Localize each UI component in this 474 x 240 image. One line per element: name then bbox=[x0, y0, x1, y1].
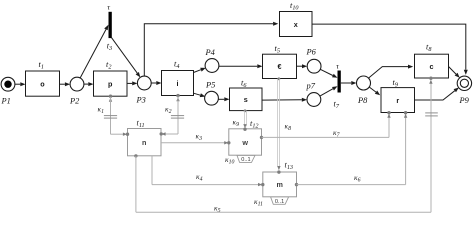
svg-text:κ11: κ11 bbox=[254, 197, 263, 208]
arc P6 -> t7 bbox=[320, 69, 337, 78]
svg-text:κ2: κ2 bbox=[165, 105, 172, 116]
arc t10 -> P9 bbox=[312, 24, 468, 75]
svg-text:t2: t2 bbox=[106, 60, 111, 71]
svg-text:t5: t5 bbox=[275, 44, 280, 55]
place P1 (initial, with token) bbox=[1, 77, 15, 91]
arc t6 -> P7 bbox=[262, 98, 307, 102]
arc kappa2: t4 i <-> t11 n (with = mark) bbox=[160, 94, 185, 136]
transition t11 'n' bbox=[128, 129, 162, 156]
arc P4 -> t5 bbox=[219, 64, 263, 68]
svg-text:t8: t8 bbox=[426, 43, 432, 54]
place P8 bbox=[357, 76, 371, 90]
arc P5 -> t6 bbox=[218, 97, 229, 101]
multiplicity flag 0..1 under t13 m bbox=[271, 197, 289, 205]
svg-text:t12: t12 bbox=[250, 119, 259, 130]
svg-text:s: s bbox=[244, 95, 248, 104]
arc kappa9: t6 s => t12 w (double line) bbox=[243, 109, 246, 130]
svg-text:P5: P5 bbox=[205, 81, 215, 90]
svg-text:P3: P3 bbox=[136, 96, 146, 105]
svg-text:t1: t1 bbox=[39, 60, 44, 71]
svg-text:κ6: κ6 bbox=[354, 173, 361, 184]
arc t5 -> P6 bbox=[297, 64, 308, 68]
transition t1 'o' bbox=[26, 71, 60, 96]
svg-text:κ4: κ4 bbox=[196, 172, 203, 183]
arc P8 -> t8 bbox=[369, 65, 414, 79]
arc t3 -> P3 bbox=[111, 37, 140, 77]
svg-text:τ: τ bbox=[336, 62, 340, 71]
transition t4 'i' bbox=[162, 71, 194, 96]
svg-text:P6: P6 bbox=[306, 48, 317, 57]
svg-text:κ8: κ8 bbox=[285, 122, 292, 133]
arc kappa7: t12 w -> t9 r bbox=[260, 111, 391, 139]
arc P2 -> t3 bbox=[80, 25, 108, 78]
arc kappa4: t11 n -> t13 m bbox=[152, 156, 264, 186]
transition t2 'p' bbox=[94, 71, 128, 96]
svg-text:n: n bbox=[142, 138, 146, 147]
svg-text:κ9: κ9 bbox=[233, 118, 240, 129]
arc t1 -> P2 bbox=[60, 82, 71, 86]
svg-text:m: m bbox=[276, 180, 282, 189]
svg-text:P1: P1 bbox=[1, 97, 11, 106]
place P5 bbox=[205, 91, 219, 105]
svg-text:κ1: κ1 bbox=[98, 105, 105, 116]
arc t8 -> P9 bbox=[449, 67, 460, 78]
transition t8 'c' bbox=[415, 54, 449, 78]
arc P8 -> t9 bbox=[369, 87, 380, 95]
arc P2 -> t2 bbox=[84, 82, 94, 86]
svg-text:o: o bbox=[40, 79, 45, 88]
arc t4 -> P4 bbox=[194, 68, 206, 73]
arc P3 -> t10 bbox=[144, 22, 278, 76]
transition t3 (tau bar) bbox=[109, 12, 112, 38]
arc t7 -> P8 bbox=[341, 81, 357, 85]
arc kappa3: t11 n -> t12 w bbox=[161, 141, 231, 144]
svg-text:c: c bbox=[430, 62, 434, 71]
svg-text:i: i bbox=[177, 79, 179, 88]
arc t2 -> P3 bbox=[127, 81, 137, 85]
arc kappa8: t5 euro => t13 m (double line) bbox=[277, 77, 280, 173]
place P2 bbox=[70, 77, 84, 91]
multiplicity flag 0..1 under t12 w bbox=[237, 155, 255, 163]
svg-text:t3: t3 bbox=[107, 42, 112, 53]
svg-text:t10: t10 bbox=[290, 1, 299, 12]
arc t4 -> P5 bbox=[194, 93, 206, 97]
svg-text:w: w bbox=[241, 138, 248, 147]
svg-text:κ10: κ10 bbox=[225, 155, 234, 166]
svg-text:x: x bbox=[294, 20, 298, 29]
svg-text:P8: P8 bbox=[357, 96, 368, 105]
arc t9 -> P9 bbox=[415, 88, 459, 101]
transition t9 'r' bbox=[381, 88, 415, 113]
arc P3 -> t4 bbox=[151, 81, 161, 85]
arc P1 -> t1 bbox=[15, 82, 26, 86]
svg-text:0..1: 0..1 bbox=[241, 157, 250, 163]
svg-text:P9: P9 bbox=[459, 96, 470, 105]
place P3 bbox=[137, 76, 151, 90]
svg-text:κ3: κ3 bbox=[196, 132, 203, 143]
transition t10 'x' bbox=[280, 12, 313, 37]
arc kappa5: t11 n -> t8 c (with = mark) bbox=[134, 77, 438, 213]
svg-text:t7: t7 bbox=[334, 100, 340, 111]
arc kappa6: t13 m -> t9 r bbox=[295, 111, 408, 186]
transition t12 'w' bbox=[229, 129, 262, 155]
place P9 (final, double circle) bbox=[457, 76, 471, 90]
svg-text:p: p bbox=[108, 79, 113, 88]
arc kappa1: t2 p <-> t11 n (with = mark) bbox=[104, 95, 129, 136]
svg-text:t4: t4 bbox=[174, 60, 179, 71]
transition t13 'm' bbox=[263, 172, 297, 197]
svg-text:€: € bbox=[278, 62, 282, 71]
svg-text:τ: τ bbox=[107, 3, 111, 12]
place P4 bbox=[205, 59, 219, 73]
svg-text:P2: P2 bbox=[69, 97, 79, 106]
svg-text:t9: t9 bbox=[393, 78, 398, 89]
svg-text:r: r bbox=[396, 96, 399, 105]
svg-text:κ7: κ7 bbox=[333, 128, 341, 139]
transition t5 (euro) bbox=[263, 54, 297, 78]
place P7 bbox=[307, 93, 321, 107]
svg-text:t11: t11 bbox=[137, 119, 145, 130]
transition t6 's' bbox=[230, 88, 263, 111]
svg-text:t13: t13 bbox=[285, 161, 294, 172]
svg-text:0..1: 0..1 bbox=[275, 199, 284, 205]
svg-text:P4: P4 bbox=[205, 48, 215, 57]
place P6 bbox=[307, 59, 321, 73]
svg-text:p7: p7 bbox=[306, 82, 316, 91]
arc P7 -> t7 bbox=[320, 86, 338, 96]
svg-text:κ5: κ5 bbox=[214, 204, 221, 215]
transition t7 (tau bar) bbox=[338, 71, 341, 93]
